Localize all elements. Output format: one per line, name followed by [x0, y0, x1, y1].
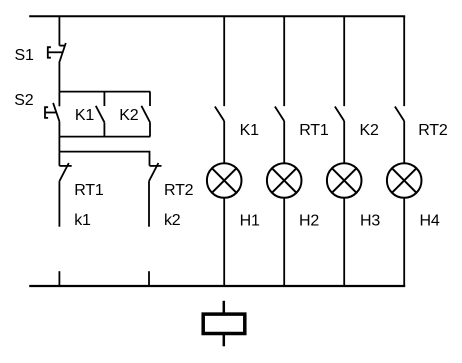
- svg-text:K2: K2: [119, 107, 138, 124]
- wire: lamp H2 to bottom bus: [283, 198, 285, 286]
- svg-text:RT1: RT1: [74, 182, 104, 199]
- svg-text:H1: H1: [240, 212, 260, 229]
- svg-text:RT1: RT1: [299, 122, 329, 139]
- svg-text:K1: K1: [75, 107, 94, 124]
- wire: parallel block top rail: [59, 91, 150, 93]
- svg-text:RT2: RT2: [164, 182, 194, 199]
- pushbutton S2 (NO contact): [45, 92, 59, 137]
- wire: lamp H1 to bottom bus: [223, 198, 225, 286]
- contact RT1 (lamp branch 2, NO): [275, 107, 284, 122]
- contact K1 (NO, parallel with S2): [96, 92, 105, 137]
- wire: contact to lamp H1: [223, 121, 225, 163]
- timer contact RT2 (NC): [149, 163, 162, 181]
- wire: stub to bottom bus (k2 branch): [148, 271, 150, 286]
- wire: lamp H3 to bottom bus: [343, 198, 345, 286]
- pushbutton S1 (NC contact): [48, 43, 66, 62]
- contact K1 (lamp branch 1, NO): [215, 107, 224, 122]
- svg-text:K1: K1: [240, 122, 259, 139]
- wire: stub to bottom bus (k1 branch): [58, 271, 60, 286]
- wire: top bus to contact RT1 (lamp branch 2): [283, 16, 285, 106]
- contact RT2 (lamp branch 4, NO): [395, 107, 404, 122]
- wire: RT split rail: [59, 152, 149, 166]
- wire: contact to lamp H2: [283, 121, 285, 163]
- wire: top bus to contact RT2 (lamp branch 4): [403, 16, 405, 106]
- coil (unlabeled box below bottom bus): [203, 301, 245, 347]
- lamp H4: [387, 163, 422, 198]
- wire: top bus to S1: [58, 16, 60, 45]
- svg-text:H2: H2: [299, 212, 319, 229]
- svg-text:RT2: RT2: [418, 122, 448, 139]
- lamp H1: [207, 163, 242, 198]
- svg-text:S1: S1: [15, 47, 34, 64]
- svg-text:S2: S2: [14, 92, 33, 109]
- top bus: [29, 15, 405, 17]
- lamp H2: [267, 163, 302, 198]
- svg-text:H3: H3: [360, 212, 380, 229]
- contact K2 (NO, parallel with S2): [141, 92, 150, 137]
- wire: S1 to parallel block: [58, 61, 60, 91]
- timer contact RT1 (NC): [59, 152, 71, 182]
- svg-text:H4: H4: [420, 212, 440, 229]
- wire: top bus to contact K1 (lamp branch 1): [223, 16, 225, 106]
- wire: contact to lamp H3: [343, 121, 345, 163]
- wire: RT1 below contact: [58, 181, 60, 227]
- wire: top bus to contact K2 (lamp branch 3): [343, 16, 345, 106]
- wire: lamp H4 to bottom bus: [403, 198, 405, 286]
- lamp H3: [327, 163, 362, 198]
- wire: contact to lamp H4: [403, 121, 405, 163]
- svg-text:K2: K2: [360, 122, 379, 139]
- contact K2 (lamp branch 3, NO): [335, 107, 344, 122]
- svg-text:k1: k1: [74, 212, 91, 229]
- wire: RT2 below contact: [148, 181, 150, 227]
- wire: block to RT split: [58, 137, 60, 152]
- wire: parallel block bottom rail: [59, 136, 150, 138]
- bottom bus: [29, 285, 405, 287]
- svg-text:k2: k2: [164, 212, 181, 229]
